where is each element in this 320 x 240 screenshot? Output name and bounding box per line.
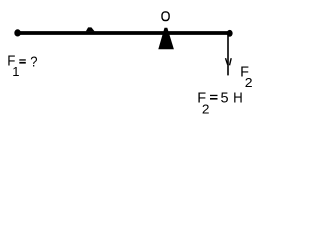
fulcrum triangle (158, 28, 174, 50)
force F2 arrow shaft (227, 34, 229, 75)
right end dot (F2 application point) (227, 30, 233, 37)
svg-text:5: 5 (220, 91, 228, 107)
lever beam (16, 31, 232, 35)
label F2 = 5 H (197, 89, 242, 116)
left end dot (F1 application point) (14, 29, 21, 36)
fulcrum label O (162, 12, 169, 21)
label F2 next to arrow (240, 65, 252, 90)
svg-text:H: H (233, 89, 243, 106)
label F1 = ? (7, 52, 37, 79)
svg-text:2: 2 (245, 75, 253, 89)
svg-text:?: ? (30, 54, 38, 70)
point marker on beam (86, 27, 95, 31)
svg-text:1: 1 (12, 64, 19, 79)
force F2 arrowhead barbs (226, 58, 232, 65)
svg-text:2: 2 (202, 102, 210, 117)
